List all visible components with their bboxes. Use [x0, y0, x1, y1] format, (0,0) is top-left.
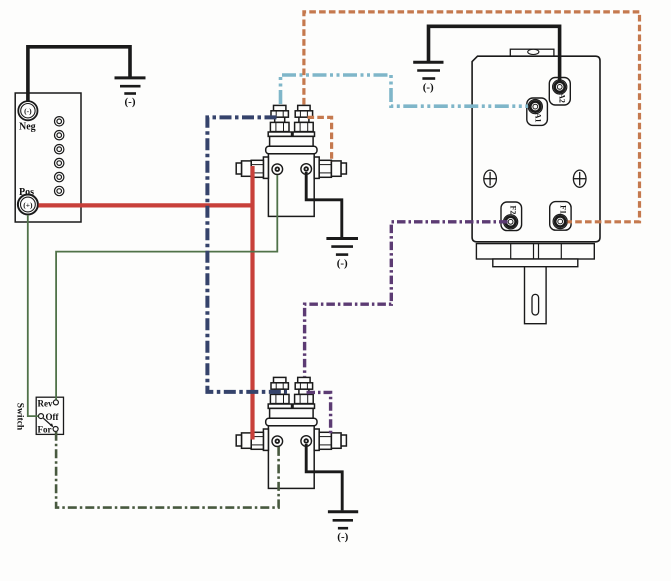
side terminal right	[314, 157, 346, 178]
top terminal stud left	[270, 105, 289, 131]
motor mounting flange upper	[476, 244, 594, 259]
motor screw left	[484, 170, 497, 187]
motor M1 body	[472, 49, 600, 242]
svg-text:(-): (-)	[337, 531, 348, 543]
wire battery Pos to solenoid side terminals (red)	[39, 166, 253, 440]
collar	[266, 146, 317, 154]
wire battery Pos to switch Off (green)	[28, 215, 39, 416]
svg-text:F2: F2	[509, 206, 518, 215]
wire battery Neg to chassis ground (black)	[28, 47, 130, 102]
svg-text:Off: Off	[46, 412, 60, 422]
wire solenoid A coil to ground (black)	[306, 172, 342, 237]
svg-text:Switch: Switch	[15, 403, 25, 431]
top terminal stud right	[295, 105, 314, 131]
svg-text:(-): (-)	[125, 96, 136, 108]
wire switch For to solenoid B coil (green dash-dot)	[56, 432, 279, 508]
battery cells	[55, 117, 64, 196]
motor shaft keyway slot	[532, 294, 539, 315]
battery negative terminal (-)	[18, 101, 37, 120]
wire solenoid A left stud to solenoid B left stud (navy dash-dot)	[207, 117, 287, 392]
motor shaft	[525, 267, 547, 324]
switch S1	[36, 397, 63, 434]
svg-text:(-): (-)	[423, 82, 434, 94]
svg-text:For: For	[38, 425, 52, 435]
cap band	[270, 136, 314, 146]
ground symbol solenoid B	[328, 512, 358, 543]
svg-text:F1: F1	[558, 205, 567, 214]
solenoid B (lower contactor)	[236, 377, 346, 488]
ground symbol solenoid A	[326, 239, 358, 270]
svg-text:(-): (-)	[24, 106, 32, 115]
wire solenoid A left stud to motor A1 (cyan dash-dot)	[281, 75, 529, 106]
main body	[268, 154, 314, 217]
switch lever	[43, 418, 52, 426]
cap plate	[268, 132, 314, 136]
side terminal left	[236, 157, 268, 178]
wire motor A2 to chassis ground (black)	[429, 26, 560, 82]
svg-text:(-): (-)	[337, 258, 348, 270]
wire switch Rev to solenoid A coil (green)	[56, 175, 277, 400]
svg-text:Rev: Rev	[38, 398, 53, 408]
motor terminal F1	[550, 202, 571, 231]
coil contact left	[272, 164, 283, 175]
svg-text:(+): (+)	[23, 200, 33, 209]
wire solenoid A right stud to motor F1 (orange dashed)	[304, 12, 640, 222]
solenoid A (upper contactor)	[236, 105, 346, 216]
motor terminal A1	[527, 98, 548, 125]
coil contact right	[301, 164, 312, 175]
svg-text:A2: A2	[558, 93, 567, 103]
ground symbol motor	[413, 62, 443, 93]
battery BT1	[15, 93, 81, 222]
wire motor F2 to solenoid B (purple dash-dot)	[305, 222, 508, 435]
svg-text:A1: A1	[533, 113, 542, 123]
motor screw right	[573, 170, 586, 187]
motor terminal A2	[549, 78, 570, 106]
wire solenoid A right stud to right side terminal (orange dashed)	[308, 117, 332, 162]
wire solenoid B coil to ground (black)	[306, 444, 342, 510]
battery positive terminal (+)	[18, 195, 38, 215]
motor mounting flange lower	[493, 259, 578, 267]
svg-text:Neg: Neg	[19, 122, 36, 133]
motor terminal F2	[501, 202, 522, 231]
ground symbol battery	[115, 78, 146, 108]
